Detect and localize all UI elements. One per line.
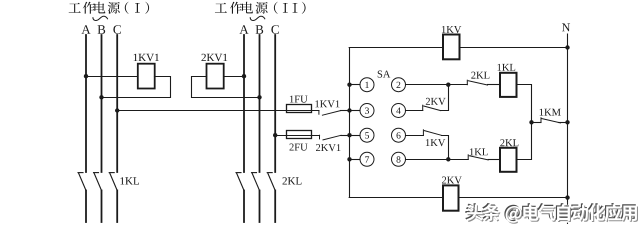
relay coil 1KL <box>500 73 517 97</box>
junction node r4 <box>446 157 450 161</box>
junction on C(I) <box>115 108 119 112</box>
wire: 1KL coil to 1KM node <box>517 85 532 123</box>
SA terminal 2 <box>392 78 406 92</box>
SA terminal 6 <box>392 128 406 142</box>
SA terminal 8 <box>392 152 406 166</box>
SA terminal 7 <box>360 152 374 166</box>
relay coil 2KV1 <box>207 64 224 89</box>
label 2KV (coil) <box>442 177 462 184</box>
junction bus row 3 <box>347 133 351 137</box>
junction on A(II) <box>242 74 246 78</box>
label 2FU <box>290 144 308 151</box>
phase label A (source II) <box>239 25 248 34</box>
phase label C (source I) <box>113 25 121 34</box>
wire: bus top to 1KV coil <box>349 47 443 49</box>
wire: 1KV1 coil to B(I) <box>102 77 171 98</box>
label 1KL (contact row4) <box>470 148 488 155</box>
wire: SA4 to 2KV contact <box>406 110 423 112</box>
contact 2KL (NO) <box>467 80 487 85</box>
phase label B (source II) <box>256 25 264 34</box>
relay coil 1KV1 <box>138 64 155 89</box>
phase label A (source I) <box>81 25 90 34</box>
SA terminal 3 <box>360 104 374 118</box>
wire: C(I) to fuse 1FU and contact <box>117 110 319 112</box>
SA terminal 5 <box>360 128 374 142</box>
wire: SA8 to node r4 <box>406 159 449 161</box>
breaker 2KL pole B (blade+tick) <box>252 173 260 191</box>
contact 1KM (NO) <box>541 118 561 123</box>
wire: 2KV1 coil left to B(II) <box>192 77 260 98</box>
wire: source I phase A lower <box>85 191 87 223</box>
contact 2KV1 (NO) <box>320 135 342 140</box>
junction on A(I) <box>84 74 88 78</box>
wire: C(II) to fuse 2FU and contact <box>275 135 319 137</box>
wire: bus to SA terminal 5 <box>349 135 360 137</box>
junction 1KM node <box>529 120 533 124</box>
breaker 1KL pole A (blade+tick) <box>78 173 86 191</box>
junction N at 1KM <box>565 120 569 124</box>
wire: A(I) to 1KV1 coil <box>86 76 138 78</box>
label: breaker 1KL <box>121 177 140 184</box>
lead squiggle II <box>250 16 265 20</box>
junction N top <box>565 45 569 49</box>
relay coil 1KV <box>443 35 460 60</box>
wire: 2KV1 contact to SA bus <box>341 135 349 137</box>
label: breaker 2KL <box>283 177 302 184</box>
wire: contact to 2KL coil <box>488 159 500 161</box>
SA terminal 4 <box>392 104 406 118</box>
wire: 1KM contact to N <box>559 122 568 124</box>
wire: bus to SA terminal 3 <box>349 110 360 112</box>
wire: 2KV coil to N <box>459 197 568 199</box>
junction bus row 2 <box>347 108 351 112</box>
label N <box>562 23 570 31</box>
label 1KM <box>540 109 561 116</box>
phase label B (source I) <box>98 25 106 34</box>
wire: 2KV1 coil right to A(II) <box>224 76 244 78</box>
relay coil 2KV <box>443 185 459 210</box>
junction on B(II) <box>257 95 261 99</box>
wire: 2KV contact to node r1 <box>441 85 449 111</box>
label 1KV (contact row3) <box>426 139 445 146</box>
wire: N line <box>567 34 569 224</box>
wire: contact to 1KL coil <box>488 84 501 86</box>
wire: 1KV coil to N <box>460 47 568 49</box>
label 2KV (contact row2) <box>426 98 446 105</box>
junction N bottom <box>565 195 569 199</box>
wire: source II phase B lower <box>259 191 261 223</box>
wire: 2KL coil up to 1KM node <box>517 123 532 160</box>
contact 2KV (NO) <box>423 105 441 110</box>
fuse 1FU <box>287 105 312 113</box>
wire: bus bottom to 2KV coil <box>349 197 443 199</box>
wire: source I phase A upper <box>85 35 87 172</box>
label 2KV1 (contact) <box>316 144 341 151</box>
wire: bus to SA terminal 7 <box>349 159 360 161</box>
wire: node to 1KM contact <box>532 122 542 124</box>
wire: node r4 to 1KL contact <box>448 159 468 161</box>
label 2KL (contact row1) <box>471 72 489 79</box>
label 1KV (coil) <box>442 26 461 33</box>
fuse 2FU <box>287 131 312 139</box>
contact 1KL (NO) <box>468 155 488 160</box>
wire: SA2 to node <box>406 84 449 86</box>
label 2KL (coil) <box>500 139 518 146</box>
junction node r1 <box>446 83 450 87</box>
breaker 1KL pole C (blade+tick) <box>109 173 117 191</box>
label SA <box>378 71 391 78</box>
wire: source II phase B upper <box>259 35 261 172</box>
wire: source II phase C lower <box>274 191 276 223</box>
wire: SA6 to 1KV contact <box>406 135 424 137</box>
breaker 1KL pole B (blade+tick) <box>94 173 102 191</box>
wire: source I phase C upper <box>116 35 118 172</box>
wire: node to 2KL contact <box>448 84 467 86</box>
watermark 头条@电气自动化应用 <box>465 203 638 224</box>
wire: source I phase B lower <box>101 191 103 223</box>
label 2KV1 (coil) <box>202 54 228 62</box>
wire: source I phase C lower <box>116 191 118 223</box>
label: power source II 工作电源（Ⅱ） <box>215 2 306 14</box>
SA terminal 1 <box>360 78 374 92</box>
wire: source II phase A upper <box>243 35 245 172</box>
contact 1KV1 (NO) <box>319 111 341 116</box>
relay coil 2KL <box>500 148 517 172</box>
label 1FU <box>290 96 308 103</box>
wire: source I phase B upper <box>101 35 103 172</box>
wire: source II phase A lower <box>243 191 245 223</box>
label 1KL (coil) <box>498 64 516 71</box>
wire: 1KV1 contact to SA bus <box>341 110 350 112</box>
junction on C(II) <box>273 133 277 137</box>
junction bus row 1 <box>347 83 351 87</box>
junction on B(I) <box>99 95 103 99</box>
wire: bus to SA terminal 1 <box>349 84 360 86</box>
wire: source II phase C upper <box>274 35 276 172</box>
contact 1KV (NO) <box>423 130 441 136</box>
wire: 1KV contact down to row4 node <box>442 136 449 160</box>
lead squiggle I <box>93 16 108 20</box>
label 1KV1 (coil) <box>134 54 159 62</box>
breaker 2KL pole A (blade+tick) <box>236 173 244 191</box>
label: power source I 工作电源（Ⅰ） <box>69 2 149 14</box>
breaker 2KL pole C (blade+tick) <box>267 173 275 191</box>
wire: SA left bus <box>349 48 351 198</box>
label 1KV1 (contact) <box>315 100 339 107</box>
junction bus row 4 <box>347 157 351 161</box>
phase label C (source II) <box>271 25 279 34</box>
